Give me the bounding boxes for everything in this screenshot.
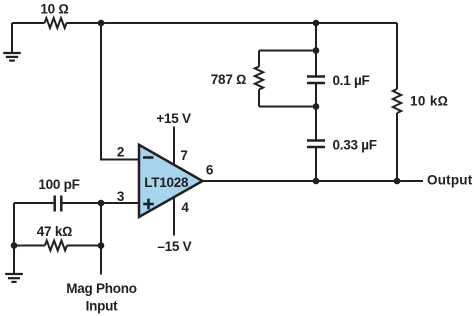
svg-text:LT1028: LT1028 xyxy=(144,175,189,190)
svg-text:6: 6 xyxy=(206,162,214,177)
svg-text:0.33 µF: 0.33 µF xyxy=(333,137,377,152)
svg-text:47 kΩ: 47 kΩ xyxy=(37,224,72,239)
svg-text:787 Ω: 787 Ω xyxy=(211,72,246,87)
svg-text:0.1 µF: 0.1 µF xyxy=(333,73,370,88)
svg-text:Input: Input xyxy=(86,298,118,313)
svg-text:10 Ω: 10 Ω xyxy=(40,1,68,16)
svg-text:–15 V: –15 V xyxy=(157,239,191,254)
svg-text:4: 4 xyxy=(181,200,189,215)
svg-text:Mag Phono: Mag Phono xyxy=(66,281,137,296)
svg-text:7: 7 xyxy=(180,148,187,163)
svg-text:+15 V: +15 V xyxy=(156,111,191,126)
svg-text:3: 3 xyxy=(117,189,125,204)
svg-text:100 pF: 100 pF xyxy=(38,177,79,192)
svg-text:10 kΩ: 10 kΩ xyxy=(410,94,448,109)
svg-text:2: 2 xyxy=(117,145,124,160)
svg-text:Output: Output xyxy=(427,173,473,188)
